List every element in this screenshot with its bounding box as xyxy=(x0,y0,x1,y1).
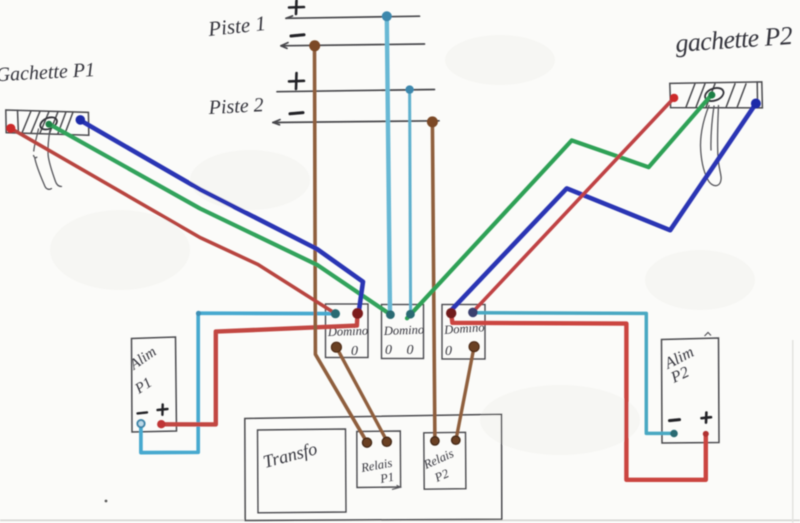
rail Piste1 + (wire) xyxy=(286,16,420,18)
node Domino1 terminal 1 (teal) xyxy=(331,309,340,318)
pencil tick above Alim P2 xyxy=(705,333,712,337)
trigger contact ellipse P1 xyxy=(38,115,58,132)
svg-text:0: 0 xyxy=(407,343,414,358)
node Gachette P2 red terminal xyxy=(670,94,678,102)
node Domino1 terminal 3 (brown) xyxy=(331,342,341,352)
Piste 1 minus symbol xyxy=(291,35,304,36)
svg-text:0: 0 xyxy=(385,343,392,358)
svg-text:Domino: Domino xyxy=(383,323,425,338)
node Piste1- brown junction dot xyxy=(309,40,320,51)
trigger handle P1 (pencil sketch) xyxy=(34,129,62,189)
wire blue Gachette P2 to Domino3 T1 xyxy=(451,104,756,311)
Piste 2 plus symbol xyxy=(289,73,304,89)
svg-text:0: 0 xyxy=(351,344,358,359)
rail Piste1 - (wire) xyxy=(281,43,425,49)
wire red Gachette P1 to Domino1 T1 xyxy=(11,129,335,314)
control unit outer box (pencil) xyxy=(245,414,502,520)
node Alim P2 plus terminal xyxy=(703,431,709,437)
rail Piste2 - (wire) xyxy=(273,120,439,125)
Piste 1 plus symbol xyxy=(289,1,304,15)
node Relais P1 terminal right xyxy=(382,437,391,446)
node Alim P1 minus terminal xyxy=(137,420,144,427)
node Relais P1 terminal left xyxy=(362,438,371,447)
wire brown Piste2- down to Relais P2 left terminal xyxy=(432,122,435,441)
power supply Alim P2 (box) xyxy=(662,338,720,443)
node Domino3 terminal 1 (maroon) xyxy=(446,308,456,318)
node Piste1+ cyan junction dot xyxy=(382,11,392,21)
node Gachette P2 green terminal xyxy=(708,91,715,98)
wire green Gachette P2 to Domino2 T2 xyxy=(407,95,712,318)
wire brown Domino3 T3 to Relais P2 right terminal xyxy=(456,347,474,441)
Alim P1 minus symbol xyxy=(138,412,148,413)
svg-text:0: 0 xyxy=(445,344,452,359)
node Domino2 terminal 2 (teal) xyxy=(406,310,415,319)
Alim P2 plus symbol xyxy=(702,413,712,423)
wire red Gachette P2 to Domino3 T2 xyxy=(473,98,674,312)
node Gachette P1 red terminal xyxy=(6,124,15,133)
node Domino3 terminal 2 (navy) xyxy=(468,308,478,318)
node Relais P2 terminal left xyxy=(431,437,439,445)
transformer Transfo (box) xyxy=(258,429,347,513)
node Domino3 terminal 3 (brown) xyxy=(469,342,479,352)
node Gachette P1 green terminal xyxy=(46,121,53,128)
rail Piste2 + (wire) xyxy=(277,90,435,92)
wire red Domino3 T1 to Alim P2 plus xyxy=(451,314,706,480)
wire cyan Domino1 T1 to Alim P1 minus xyxy=(141,313,336,452)
Alim P2 minus symbol xyxy=(670,420,680,421)
node Gachette P2 blue terminal xyxy=(751,99,761,109)
svg-text:P1: P1 xyxy=(378,470,395,486)
node Relais P2 terminal right xyxy=(452,436,460,444)
power supply Alim P1 (box) xyxy=(132,337,177,432)
terminal block Domino 2 (box) xyxy=(382,305,424,359)
wire brown Piste1- down and to Relais P1 left terminal xyxy=(315,46,368,443)
terminal block Domino 1 (box) xyxy=(326,304,369,358)
node Domino1 terminal 2 (maroon) xyxy=(352,308,363,319)
Piste 2 minus symbol xyxy=(290,113,303,114)
svg-text:Piste 2: Piste 2 xyxy=(207,94,264,119)
wire red Alim P1 plus to Domino1 T2 xyxy=(161,315,357,424)
junction cyan corner near Domino1 xyxy=(196,311,201,316)
node Gachette P1 blue terminal xyxy=(76,115,86,125)
node Alim P1 plus terminal xyxy=(157,420,165,428)
wire cyan Piste1+ down to Domino2 terminal 1 xyxy=(387,17,390,314)
node Alim P2 minus terminal xyxy=(670,430,678,438)
relay Relais P2 (box) xyxy=(424,432,466,489)
pencil tick at Relais P1 bottom-right xyxy=(392,485,401,489)
relay Relais P1 (box) xyxy=(357,431,401,488)
node Piste2- brown junction dot xyxy=(427,116,438,127)
wire blue Gachette P1 to Domino1 T2 xyxy=(80,120,363,311)
terminal block Domino 3 (box) xyxy=(442,305,485,360)
trigger housing Gachette P2 (hatched box) xyxy=(670,82,763,108)
wire cyan Piste2+ down to Domino2 terminal 2 xyxy=(410,90,411,314)
wire cyan Domino3 T2 to Alim P2 minus xyxy=(473,313,673,434)
trigger contact ellipse P2 xyxy=(703,86,725,104)
node Domino2 terminal 1 (teal) xyxy=(386,310,395,319)
wire green Gachette P1 to Domino2 T1 xyxy=(49,124,390,315)
trigger housing Gachette P1 (hatched box) xyxy=(6,110,89,135)
paper speck xyxy=(105,500,108,503)
trigger handle P2 (pencil sketch) xyxy=(701,106,722,186)
Alim P1 plus symbol xyxy=(158,404,168,414)
node Piste2+ cyan junction dot xyxy=(405,85,413,93)
wire brown Domino1 T3 to Relais P1 right terminal xyxy=(336,347,387,441)
